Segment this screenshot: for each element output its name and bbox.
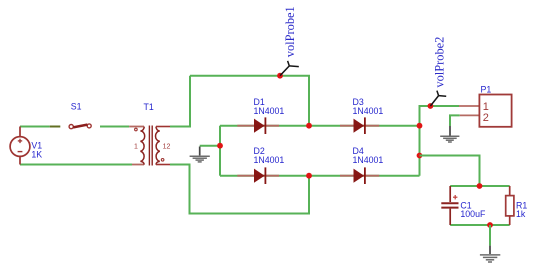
diode D2 (237, 167, 279, 184)
svg-text:1N4001: 1N4001 (353, 106, 384, 116)
secondary top lead (156, 126, 170, 128)
junction node B / D2 cathode (306, 173, 312, 179)
secondary bottom lead (156, 164, 170, 166)
probe volProbe1 (277, 61, 299, 79)
connector P1 (459, 95, 512, 127)
capacitor C1 (441, 186, 458, 225)
transformer T1 (129, 126, 170, 166)
svg-text:volProbe1: volProbe1 (283, 6, 297, 57)
svg-text:S1: S1 (71, 102, 82, 112)
junction node A / D1 cathode (306, 123, 312, 129)
junction ground node (217, 143, 223, 149)
svg-text:12: 12 (163, 143, 171, 150)
secondary winding (156, 127, 160, 165)
wire filter bottom rail (450, 224, 510, 226)
wire load branch to filter (420, 156, 480, 187)
svg-text:1N4001: 1N4001 (353, 155, 384, 165)
junction bottom rail ground tap (487, 222, 493, 228)
svg-text:P1: P1 (481, 85, 492, 95)
wire top row left (V1 to S1) (20, 126, 50, 128)
svg-text:1K: 1K (31, 149, 42, 159)
svg-text:1: 1 (134, 143, 138, 150)
wire node A top rail (190, 76, 309, 126)
primary polarity dot (135, 128, 138, 131)
diode D3 (340, 117, 379, 134)
wire filter top rail (450, 185, 510, 187)
wire D4 row (309, 175, 420, 177)
svg-text:1N4001: 1N4001 (254, 106, 285, 116)
voltage source V1 (10, 127, 30, 165)
svg-text:T1: T1 (144, 102, 154, 112)
wire left bridge vertical (ground node) (219, 126, 221, 176)
secondary polarity dot (161, 159, 164, 162)
primary bottom lead (132, 164, 144, 166)
wire S1 left lead olive segment (50, 126, 61, 128)
junction load branch (417, 153, 423, 159)
wire S1 to T1 (100, 126, 129, 128)
svg-text:1N4001: 1N4001 (254, 155, 285, 165)
svg-text:1k: 1k (516, 209, 526, 219)
junction top rail feed (477, 183, 483, 189)
wire secondary bottom to node B (170, 165, 309, 214)
diode D4 (340, 167, 379, 184)
wire D3 row (309, 125, 420, 127)
plus mark (453, 196, 457, 198)
svg-text:2: 2 (483, 112, 489, 124)
svg-text:100uF: 100uF (460, 209, 486, 219)
switch S1 (69, 124, 91, 129)
core lines (148, 126, 150, 166)
svg-text:volProbe2: volProbe2 (433, 37, 447, 88)
wire ground branch (200, 145, 220, 147)
junction D3 cathode (417, 123, 423, 129)
wire D1 row (220, 125, 309, 127)
primary top lead (129, 126, 144, 128)
primary winding (140, 127, 144, 165)
wire bottom ground drop (489, 225, 491, 246)
wire bottom row left (V1 to T1) (20, 164, 132, 166)
ground (bridge) (190, 147, 210, 162)
wire P1 pin2 to ground (450, 115, 460, 126)
ground (output) (480, 246, 500, 262)
wire right bridge vertical (output node) (420, 106, 460, 176)
resistor R1 (506, 186, 514, 225)
diode D1 (237, 117, 279, 134)
wire secondary top to node A riser (170, 76, 190, 127)
probe volProbe2 (428, 91, 447, 109)
ground (P1 pin 2) (440, 126, 459, 142)
wire D2 row (220, 175, 309, 177)
